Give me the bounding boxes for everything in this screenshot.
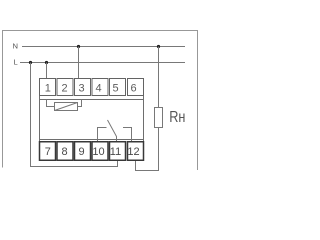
svg-text:9: 9	[78, 146, 84, 158]
resistor Rн (load)	[155, 108, 163, 128]
svg-text:5: 5	[112, 82, 118, 94]
wire L line	[20, 62, 185, 64]
svg-text:1: 1	[45, 82, 51, 94]
wire N line	[22, 46, 185, 48]
terminal 3	[75, 79, 91, 96]
junction N to load	[157, 45, 160, 48]
terminal 8	[57, 142, 73, 161]
wire N to resistor top	[158, 47, 160, 108]
svg-text:2: 2	[62, 82, 68, 94]
wire L around left-bottom to terminal 11	[31, 63, 118, 167]
device body outline	[40, 96, 144, 142]
contact NC hook terminal 10	[98, 128, 107, 142]
coil K1 leads	[47, 100, 82, 107]
svg-text:11: 11	[110, 146, 121, 158]
terminal 9	[75, 142, 91, 161]
contact blade terminal 11	[108, 120, 117, 142]
terminal 11	[110, 142, 126, 161]
junction N to terminal 3	[77, 45, 80, 48]
terminal 5	[110, 79, 126, 96]
svg-text:10: 10	[92, 146, 104, 158]
svg-text:3: 3	[78, 82, 84, 94]
wire terminal 12 to resistor bottom	[136, 128, 159, 171]
wire L to terminal 1	[46, 63, 48, 79]
svg-text:12: 12	[127, 146, 139, 158]
terminal 1	[40, 79, 56, 96]
svg-text:6: 6	[130, 82, 136, 94]
terminal 6	[128, 79, 144, 96]
border frame (decorative)	[3, 31, 198, 171]
svg-text:8: 8	[62, 146, 68, 158]
svg-text:N: N	[13, 42, 18, 51]
terminal 2	[57, 79, 73, 96]
terminal 12	[128, 142, 144, 161]
terminal 7	[40, 142, 56, 161]
svg-text:Rн: Rн	[169, 109, 185, 126]
junction L to terminal 1	[45, 61, 48, 64]
coil K1	[55, 103, 78, 111]
terminal 10	[92, 142, 108, 161]
svg-text:7: 7	[45, 146, 51, 158]
junction L left	[29, 61, 32, 64]
contact NO hook terminal 12	[123, 128, 132, 142]
svg-text:L: L	[14, 58, 18, 67]
svg-text:4: 4	[95, 82, 101, 94]
wire N to terminal 3	[78, 47, 80, 79]
terminal 4	[92, 79, 108, 96]
